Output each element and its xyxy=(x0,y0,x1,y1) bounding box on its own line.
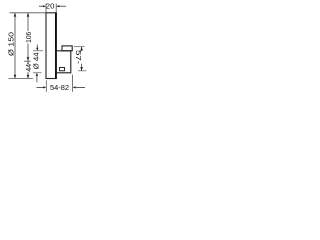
svg-text:Ø 150: Ø 150 xyxy=(6,32,15,56)
dim 54-82 left arrow xyxy=(37,86,44,88)
slot bottom extension line right xyxy=(78,70,86,72)
svg-text:54-82: 54-82 xyxy=(50,83,69,92)
dim Ø150 bottom arrow xyxy=(14,75,17,79)
bottom extension line left of plate xyxy=(9,78,33,80)
dim 44 top arrow xyxy=(27,62,30,66)
slot in handle xyxy=(60,68,65,71)
dim 106 top arrow xyxy=(27,13,30,17)
dim 44 bottom arrow xyxy=(27,75,30,79)
plate side view xyxy=(46,13,56,79)
plate right edge thick xyxy=(55,13,57,79)
svg-text:20: 20 xyxy=(46,1,55,10)
dim 106 text xyxy=(25,31,32,43)
select button xyxy=(62,46,72,51)
svg-text:106: 106 xyxy=(24,32,33,43)
dim 44 text xyxy=(25,64,32,72)
dim 54-82 right arrow xyxy=(76,86,85,88)
dim 20 ext line right xyxy=(55,4,57,13)
handle bottom extension line xyxy=(33,72,42,74)
dim 106 bottom arrow xyxy=(27,57,30,61)
dim 20 ext line left xyxy=(45,4,47,13)
dim Ø150 line xyxy=(14,13,16,78)
dim Ø44 top arrow (outside, above) xyxy=(36,45,38,49)
svg-text:Ø 44: Ø 44 xyxy=(31,52,40,69)
button top extension line right xyxy=(74,46,85,48)
dim 20 left arrow xyxy=(39,5,43,7)
dim 20 right arrow xyxy=(59,5,66,7)
handle body xyxy=(56,51,71,73)
dim 57 bottom arrow xyxy=(80,67,83,71)
dim Ø44 bottom arrow (outside, below) xyxy=(36,76,38,83)
dim 106 line xyxy=(27,13,29,61)
dim 57 line xyxy=(81,47,83,71)
handle centre tick xyxy=(24,60,31,62)
dim 57 top arrow xyxy=(80,47,83,51)
top extension line left of plate xyxy=(10,12,47,14)
dim Ø150 top arrow xyxy=(14,13,17,17)
bottom dim ext line A (wall/plate front) xyxy=(45,80,47,92)
bottom dim ext line B (button face) xyxy=(72,75,74,92)
svg-text:57-: 57- xyxy=(74,50,83,65)
dim 44 line xyxy=(27,62,29,79)
dim 57 text xyxy=(75,51,82,64)
handle top extension line xyxy=(33,50,43,52)
